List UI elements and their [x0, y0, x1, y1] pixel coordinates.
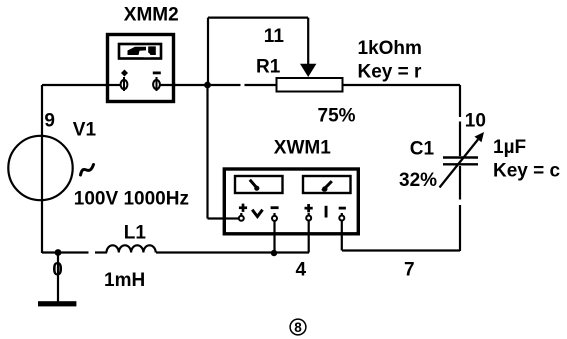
svg-text:1µF: 1µF: [493, 137, 526, 158]
svg-text:9: 9: [44, 111, 55, 132]
svg-text:11: 11: [264, 26, 285, 47]
svg-text:10: 10: [465, 110, 486, 131]
svg-text:7: 7: [404, 260, 415, 281]
svg-text:XWM1: XWM1: [274, 138, 331, 159]
svg-text:XMM2: XMM2: [124, 4, 179, 25]
svg-text:1kOhm: 1kOhm: [358, 38, 422, 59]
svg-text:R1: R1: [256, 56, 281, 77]
svg-text:V1: V1: [73, 120, 97, 141]
svg-text:Key = c: Key = c: [493, 160, 561, 181]
svg-text:4: 4: [296, 259, 307, 280]
svg-text:Key = r: Key = r: [358, 61, 423, 82]
svg-text:32%: 32%: [399, 170, 437, 191]
svg-text:0: 0: [52, 260, 63, 281]
svg-text:C1: C1: [410, 139, 435, 160]
svg-text:8: 8: [294, 320, 302, 335]
svg-text:100V 1000Hz: 100V 1000Hz: [74, 189, 189, 210]
svg-text:1mH: 1mH: [104, 270, 145, 291]
svg-text:75%: 75%: [318, 105, 356, 126]
svg-text:L1: L1: [124, 222, 147, 243]
